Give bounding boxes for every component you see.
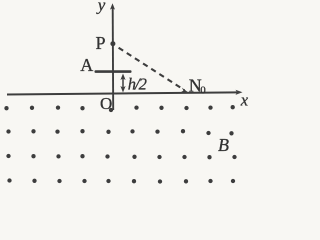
svg-text:B: B bbox=[218, 135, 229, 155]
magnetic field dots, row 4 bbox=[7, 178, 235, 183]
h/2 measure arrow (double-headed, bar to x-axis) bbox=[122, 76, 124, 90]
dashed line from P to N0 bbox=[119, 48, 185, 90]
magnetic field dots, row 3 bbox=[6, 154, 236, 160]
magnetic field dots (out of page), row 1 bbox=[4, 105, 235, 112]
y-axis arrowhead bbox=[110, 3, 115, 9]
y-axis bbox=[112, 8, 115, 110]
magnetic field dots, row 2 bbox=[6, 129, 233, 135]
arrowhead of dashed line at N0 bbox=[181, 88, 189, 93]
svg-text:0: 0 bbox=[200, 85, 206, 97]
x-axis arrowhead bbox=[236, 90, 243, 95]
svg-text:x: x bbox=[240, 91, 249, 110]
svg-text:P: P bbox=[96, 33, 106, 53]
svg-text:y: y bbox=[96, 0, 106, 15]
bar A (horizontal plate at h/2) bbox=[95, 70, 132, 73]
x-axis bbox=[7, 92, 239, 94]
point P on y-axis bbox=[110, 41, 115, 46]
svg-text:h/2: h/2 bbox=[128, 75, 147, 94]
svg-text:A: A bbox=[80, 55, 93, 75]
